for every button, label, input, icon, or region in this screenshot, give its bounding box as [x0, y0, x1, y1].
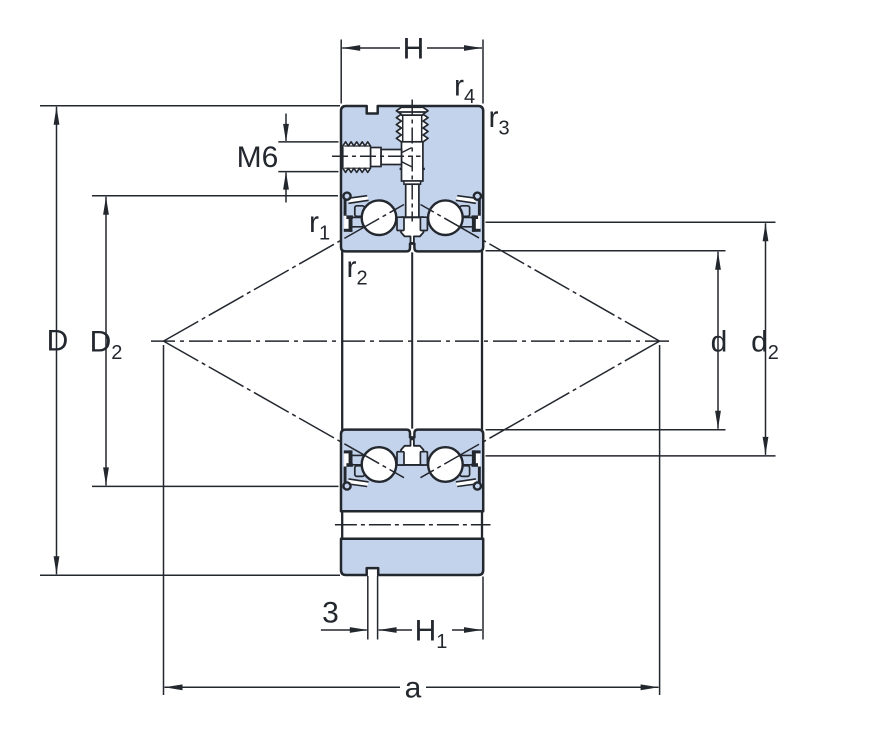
- grease nipple threaded stud: [396, 107, 428, 142]
- dimension d2 extension lines: [486, 221, 776, 223]
- nipple body collar ticks: [400, 168, 402, 170]
- mounting hole centreline: [335, 524, 491, 526]
- svg-text:H: H: [403, 33, 425, 66]
- dimension d extension lines: [486, 250, 726, 252]
- sleeve centre joint: [411, 252, 413, 428]
- bearing row detail upper-right: [420, 193, 481, 232]
- side branch neck: [381, 150, 402, 165]
- contact line lower-left: [164, 341, 405, 478]
- inner shoulder line upper: [349, 216, 475, 218]
- side branch flange: [371, 148, 382, 167]
- M6 thread root lines: [344, 145, 370, 147]
- dimension a line: [165, 686, 401, 688]
- dimension 3 extension lines: [367, 576, 369, 640]
- svg-text:a: a: [405, 672, 422, 705]
- sleeve bore left wall: [341, 251, 343, 429]
- dimension H1 line: [379, 629, 412, 631]
- contact line upper-right: [421, 205, 660, 342]
- svg-text:3: 3: [322, 597, 339, 630]
- dimension D extension lines: [40, 105, 340, 107]
- dimension H1 right extension line: [482, 577, 484, 640]
- grease nipple body: [402, 142, 423, 181]
- ball lower-right: [428, 447, 463, 482]
- lower block bottom band with slot notch: [341, 539, 483, 575]
- dimension M6 arrows: [285, 114, 287, 141]
- ball lower-left: [362, 447, 397, 482]
- lower centre spacer: [401, 439, 424, 465]
- contact line lower-right: [421, 341, 660, 478]
- lubrication duct tube: [406, 184, 419, 217]
- sleeve bore right wall: [481, 251, 483, 429]
- mounting hole band edges: [341, 510, 483, 512]
- dimension H line: [342, 47, 400, 49]
- stud thread root lines: [402, 115, 404, 141]
- dimension a extension lines: [163, 345, 165, 695]
- upper centre spacer: [401, 217, 424, 243]
- dimension d line: [717, 252, 719, 429]
- grease duct vertical centreline: [411, 100, 413, 222]
- bearing row detail lower-right: [420, 450, 481, 489]
- dimension D2 line: [105, 197, 107, 486]
- stud chamfer lines: [399, 111, 426, 113]
- svg-text:D: D: [47, 325, 69, 358]
- outer ring upper block: [341, 106, 483, 251]
- grease nipple body chamfer lines: [402, 148, 412, 153]
- inner ring lower block: [341, 430, 483, 512]
- contact line upper-left: [164, 205, 405, 342]
- dimension D line: [56, 107, 58, 574]
- dimension d2 line: [765, 223, 767, 455]
- dimension M6 extension lines: [278, 141, 338, 143]
- M6 grease fitting thread: [343, 142, 371, 173]
- svg-text:M6: M6: [237, 141, 279, 174]
- main horizontal centreline: [151, 340, 672, 342]
- dimension 3 arrow: [321, 629, 367, 631]
- M6 branch centreline: [332, 155, 421, 157]
- inner shoulder line lower: [349, 464, 475, 466]
- ball upper-right: [428, 200, 463, 235]
- ball upper-left: [362, 200, 397, 235]
- dimension H extension lines: [340, 40, 342, 104]
- bearing row detail upper-left: [343, 193, 404, 232]
- nipple base step: [404, 181, 421, 184]
- bearing row detail lower-left: [343, 450, 404, 489]
- svg-text:d: d: [711, 326, 728, 359]
- dimension D2 extension lines: [92, 195, 338, 197]
